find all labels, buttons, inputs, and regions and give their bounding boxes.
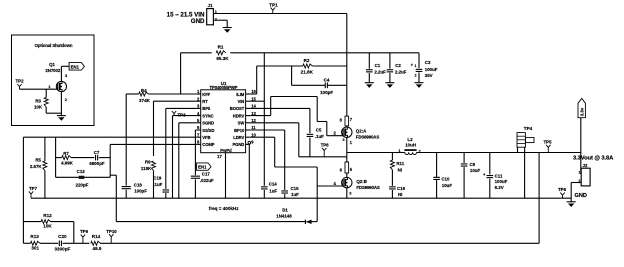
wire TP4 ground leg: [524, 147, 526, 198]
Q2B drain pin box: [345, 162, 349, 173]
pin 11 BP10: [246, 129, 251, 131]
svg-text:100pF: 100pF: [134, 189, 147, 194]
pin 10 LDRV: [246, 136, 251, 138]
wire ILIM row: [250, 93, 257, 95]
ground at C3: [415, 82, 424, 84]
wire VIN rail vertical: [346, 14, 348, 117]
resistor R9 on RT net: [154, 100, 197, 102]
svg-text:BOOST: BOOST: [230, 106, 245, 111]
wire TP4 signal leg: [517, 147, 519, 152]
svg-text:SYNC: SYNC: [202, 113, 213, 118]
wire sense rise to VOUT: [538, 153, 540, 244]
svg-text:NI: NI: [398, 168, 402, 173]
svg-text:17: 17: [217, 154, 222, 159]
svg-text:2: 2: [415, 74, 417, 78]
pin 9 PGND: [246, 143, 251, 145]
svg-text:VIN: VIN: [238, 99, 245, 104]
svg-text:freq = 400kHz: freq = 400kHz: [209, 206, 239, 211]
svg-text:TP5: TP5: [543, 139, 552, 144]
wire LDRV/D1 vertical: [316, 167, 318, 222]
ground at C2: [385, 82, 394, 84]
svg-text:R3: R3: [35, 98, 41, 103]
SW node wires: [299, 156, 347, 158]
svg-text:C2: C2: [395, 63, 401, 68]
wire Q1 drain to EN1: [60, 66, 62, 81]
wire main ground rail: [31, 197, 571, 199]
wire SW pin to SW node: [250, 122, 299, 124]
pin 6 SS/SD: [196, 129, 201, 131]
pin 4 SYNC: [196, 115, 201, 117]
svg-text:EN1: EN1: [71, 65, 80, 70]
wire ILIM rise: [256, 66, 258, 94]
svg-text:R9: R9: [145, 160, 151, 165]
svg-text:C16: C16: [397, 186, 406, 191]
transistor Q1 body: [56, 81, 66, 91]
pin 3 BP5: [196, 107, 201, 109]
svg-text:D1: D1: [282, 208, 288, 213]
svg-text:3.3Vout @ 3.8A: 3.3Vout @ 3.8A: [573, 156, 614, 162]
svg-text:Q1: Q1: [49, 62, 55, 67]
svg-text:TP3: TP3: [178, 112, 187, 117]
svg-text:SS/SD: SS/SD: [202, 128, 214, 133]
svg-text:C19: C19: [153, 176, 162, 181]
svg-text:21.8K: 21.8K: [301, 70, 314, 75]
wire D1 cathode net: [116, 221, 305, 223]
net tag EN1 at Q1: [69, 63, 84, 71]
svg-text:GND: GND: [575, 193, 587, 199]
svg-text:C18: C18: [134, 182, 143, 187]
wire VFB net: [23, 136, 196, 138]
pin 5 SGND: [196, 122, 201, 124]
pin 7 VFB: [196, 136, 201, 138]
svg-text:1: 1: [415, 64, 417, 68]
wire sense line: [100, 242, 539, 244]
pin 8 COMP: [196, 143, 201, 145]
svg-text:ILIM: ILIM: [236, 92, 245, 97]
svg-text:R14: R14: [92, 234, 101, 239]
svg-text:C15: C15: [291, 186, 300, 191]
svg-text:LDRV: LDRV: [233, 135, 244, 140]
net tag 3.3v: [578, 98, 585, 117]
svg-text:KFF: KFF: [202, 92, 210, 97]
wire HDRV to Q2A gate: [250, 115, 271, 117]
wire J1 pin2 to ground: [213, 19, 227, 21]
svg-text:BP10: BP10: [234, 128, 245, 133]
svg-text:Q2:A: Q2:A: [356, 129, 367, 134]
test point TP3 on SYNC: [173, 115, 197, 117]
svg-text:VFB: VFB: [202, 135, 210, 140]
svg-text:TP4: TP4: [524, 126, 533, 131]
wire comp network right vertical to COMP: [109, 144, 111, 177]
svg-text:.022uF: .022uF: [200, 178, 214, 183]
svg-text:4.99K: 4.99K: [61, 160, 74, 165]
pin 12 SW: [246, 122, 251, 124]
svg-text:BP5: BP5: [202, 106, 211, 111]
ground in shutdown box: [57, 115, 66, 117]
svg-text:FDS6990AS: FDS6990AS: [356, 135, 380, 140]
svg-text:301: 301: [31, 246, 39, 251]
svg-text:TP2: TP2: [15, 79, 24, 84]
svg-text:C14: C14: [269, 182, 278, 187]
pin 1 KFF: [196, 93, 201, 95]
wire R2 left drop to C4: [291, 66, 293, 85]
svg-text:J1: J1: [207, 3, 213, 8]
svg-text:.1uF: .1uF: [153, 182, 162, 187]
wire VIN pin to top rail and C14: [250, 100, 264, 102]
svg-text:100uF: 100uF: [495, 179, 508, 184]
svg-text:10K: 10K: [43, 223, 52, 228]
svg-text:.1uF: .1uF: [315, 134, 324, 139]
svg-text:R2: R2: [304, 58, 310, 63]
svg-text:C13: C13: [77, 169, 86, 174]
svg-text:R7: R7: [63, 151, 69, 156]
svg-text:C10: C10: [441, 177, 450, 182]
svg-text:374K: 374K: [139, 98, 151, 103]
svg-text:95.3K: 95.3K: [216, 56, 229, 61]
svg-text:1N4148: 1N4148: [276, 213, 292, 218]
ground at J2: [567, 201, 576, 203]
svg-text:PwPd: PwPd: [220, 148, 232, 153]
svg-text:118K: 118K: [141, 166, 152, 171]
svg-text:1uF: 1uF: [269, 188, 277, 193]
Q2A drain pin box: [345, 116, 349, 126]
svg-text:RT: RT: [202, 99, 208, 104]
svg-text:C7: C7: [94, 150, 100, 155]
svg-text:R5: R5: [35, 157, 41, 162]
wire VOUT rail: [417, 152, 581, 154]
svg-text:10K: 10K: [34, 104, 43, 109]
svg-text:COMP: COMP: [202, 142, 214, 147]
pin 2 RT: [196, 100, 201, 102]
svg-text:2.2uF: 2.2uF: [374, 69, 386, 74]
svg-text:C1: C1: [375, 63, 381, 68]
svg-text:TP7: TP7: [29, 186, 38, 191]
pin 13 HDRV: [246, 115, 251, 117]
svg-text:Q2:B: Q2:B: [356, 179, 367, 184]
transistor Q2A body: [342, 127, 352, 137]
svg-text:220pF: 220pF: [76, 183, 89, 188]
wire LDRV to Q2B gate: [250, 136, 275, 138]
svg-text:C20: C20: [58, 234, 67, 239]
svg-text:HDRV: HDRV: [233, 113, 245, 118]
svg-text:2.67K: 2.67K: [30, 164, 43, 169]
wire SGND to ground rail: [179, 122, 196, 124]
svg-text:GND: GND: [191, 18, 205, 25]
ground at J1: [223, 27, 232, 29]
svg-text:R12: R12: [43, 213, 52, 218]
net tag EN1 at U1: [197, 163, 211, 170]
svg-text:1: 1: [579, 170, 581, 174]
wire D1 net rise: [115, 175, 117, 221]
wire to Q2B gate: [317, 185, 343, 187]
wire Q2B source to ground rail: [346, 188, 348, 198]
wire Q2A source to SW: [346, 137, 348, 156]
wire VOUT to J2 pin1: [580, 118, 582, 174]
svg-text:FDS6990AS: FDS6990AS: [356, 185, 380, 190]
svg-text:10uF: 10uF: [442, 183, 453, 188]
wire BOOST to C5: [250, 107, 310, 109]
svg-text:C4: C4: [324, 77, 330, 82]
svg-text:R13: R13: [30, 234, 39, 239]
svg-text:SW: SW: [238, 121, 245, 126]
svg-text:10uF: 10uF: [470, 168, 481, 173]
svg-text:J2: J2: [583, 163, 588, 168]
svg-text:SGND: SGND: [202, 121, 214, 126]
transistor Q2B body: [342, 177, 352, 187]
wire SYNC to ground rail: [172, 116, 174, 199]
svg-text:2N7002: 2N7002: [45, 68, 60, 73]
svg-text:6.3V: 6.3V: [495, 185, 504, 190]
svg-text:R1: R1: [218, 45, 224, 50]
svg-text:2.2uF: 2.2uF: [395, 69, 407, 74]
svg-text:EN1: EN1: [198, 165, 207, 170]
svg-text:C11: C11: [495, 174, 503, 179]
svg-text:2: 2: [215, 18, 217, 22]
wire R3 to source: [46, 112, 61, 114]
wire VFB left drop: [22, 137, 24, 243]
svg-text:1: 1: [398, 149, 400, 153]
svg-text:10uH: 10uH: [405, 143, 416, 148]
svg-text:C17: C17: [202, 171, 211, 176]
wire R12 right drop: [73, 222, 75, 244]
wire J2 pin2 to ground: [571, 182, 581, 184]
wire Q1 gate: [20, 88, 58, 90]
svg-text:100pF: 100pF: [320, 90, 333, 95]
svg-text:35V: 35V: [425, 73, 433, 78]
SS/SD net with EN1 tag and C17: [194, 129, 197, 131]
wire R1 left down to KFF: [180, 53, 182, 94]
pin 14 BOOST: [246, 107, 251, 109]
wire J1 pin1 to VIN rail: [213, 13, 346, 15]
svg-text:Optional Shutdown: Optional Shutdown: [35, 43, 73, 48]
svg-text:C5: C5: [316, 128, 322, 133]
capacitor C18 on KFF net: [125, 94, 127, 186]
svg-text:49.9: 49.9: [93, 246, 102, 251]
svg-text:TP6: TP6: [558, 187, 567, 192]
svg-text:PGND: PGND: [232, 142, 244, 147]
wire comp network left vertical: [55, 137, 57, 177]
svg-text:C8: C8: [470, 162, 476, 167]
optional shutdown enclosure: [12, 35, 95, 126]
pin 15 VIN: [246, 100, 251, 102]
svg-text:1uF: 1uF: [291, 192, 299, 197]
svg-text:TP10: TP10: [106, 229, 117, 234]
svg-text:TP8: TP8: [321, 142, 330, 147]
wire top rail to caps: [230, 52, 419, 54]
ground at C1: [365, 82, 374, 84]
svg-text:3300pF: 3300pF: [54, 246, 70, 251]
svg-text:C3: C3: [425, 60, 431, 65]
svg-text:6800pF: 6800pF: [89, 161, 104, 166]
wire Q1 source down: [60, 92, 62, 116]
svg-text:R11: R11: [396, 161, 404, 166]
svg-text:NI: NI: [398, 192, 402, 197]
svg-text:100uF: 100uF: [425, 67, 438, 72]
capacitor C19 on BP5 net: [166, 107, 196, 109]
pin 16 ILIM: [246, 93, 251, 95]
svg-text:3.3v: 3.3v: [579, 107, 584, 116]
svg-text:TP9: TP9: [80, 229, 89, 234]
svg-text:L2: L2: [407, 137, 413, 142]
svg-text:TP1: TP1: [269, 3, 278, 8]
wire BP10 to C15: [250, 129, 285, 131]
wire PGND to ground rail: [248, 143, 251, 145]
